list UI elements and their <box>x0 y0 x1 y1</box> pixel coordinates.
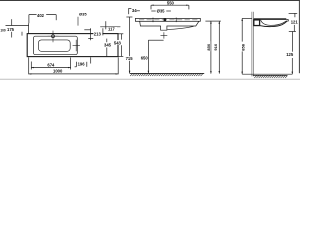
svg-text:850: 850 <box>206 43 211 50</box>
dim o35 leader <box>151 10 155 12</box>
basin drain cross <box>75 40 77 51</box>
svg-text:402: 402 <box>37 13 45 18</box>
bottom dim line <box>242 73 292 75</box>
trap curve <box>167 26 193 29</box>
plan o35 leader <box>77 17 79 26</box>
dim 213 <box>84 29 90 31</box>
slab center hole (filled) <box>164 19 167 22</box>
dim 858 <box>242 17 252 19</box>
svg-text:674: 674 <box>47 62 55 67</box>
page frame right edge <box>298 0 300 73</box>
page frame top edge <box>0 0 300 2</box>
hatching middle floor <box>130 74 203 76</box>
svg-text:910: 910 <box>213 43 218 50</box>
extension line left top <box>28 23 30 33</box>
dim 715 line <box>126 16 132 18</box>
dim 34 <box>128 8 130 14</box>
label 402 <box>37 13 47 18</box>
svg-text:175: 175 <box>7 27 15 32</box>
label 345 <box>104 42 112 47</box>
svg-text:715: 715 <box>126 56 134 61</box>
bowl outer shell <box>260 21 288 27</box>
bowl inner surface <box>261 20 287 25</box>
floor line middle <box>130 72 205 74</box>
svg-text:650: 650 <box>141 55 149 60</box>
svg-text:196: 196 <box>78 62 86 67</box>
label 117 <box>108 27 117 32</box>
label 858 rotated <box>240 42 245 52</box>
page frame bottom edge <box>0 78 300 80</box>
dim 402 brackets <box>28 15 30 24</box>
faucet hole symbol <box>52 35 55 38</box>
label 543 <box>113 40 121 45</box>
wall double line <box>251 12 253 77</box>
side floor line <box>253 74 287 76</box>
slab centerline <box>139 19 199 21</box>
dim 1000 <box>28 57 30 74</box>
dim 674 <box>30 62 32 70</box>
drain cross <box>163 32 165 38</box>
label 213 <box>93 32 102 37</box>
svg-text:125: 125 <box>286 52 294 57</box>
label 850 rotated <box>206 41 211 51</box>
svg-text:Ø35: Ø35 <box>79 12 87 17</box>
dim 125 line <box>291 32 293 52</box>
svg-text:100: 100 <box>0 28 6 32</box>
basin outer rounded rect <box>34 36 78 55</box>
back block <box>254 20 260 26</box>
height dim line 2 <box>218 21 220 74</box>
svg-text:1000: 1000 <box>53 69 63 74</box>
height dims extension <box>205 20 221 22</box>
basin inner rounded rect <box>38 40 70 51</box>
slab hole ticks <box>152 18 154 23</box>
plan outer rect <box>27 34 118 57</box>
height dim line 1 <box>210 21 212 74</box>
dim 345 line <box>106 39 108 43</box>
dim 117 <box>105 21 107 29</box>
196 extension <box>90 57 92 63</box>
fixture top band <box>254 18 287 20</box>
hole cross mark <box>88 37 93 39</box>
label 715 <box>125 56 133 61</box>
svg-text:117: 117 <box>108 27 115 32</box>
svg-text:Ø35: Ø35 <box>157 9 166 14</box>
label 910 rotated <box>213 41 218 51</box>
dim 543 line <box>120 34 122 40</box>
hole extension line <box>90 28 92 40</box>
front rim step <box>286 20 288 21</box>
left margin dim 175 marks <box>6 25 29 27</box>
dim 121 <box>289 12 298 14</box>
dim 650 leader <box>147 40 149 73</box>
svg-text:121: 121 <box>291 19 299 24</box>
dim 196 brackets <box>75 62 77 67</box>
svg-text:543: 543 <box>114 40 122 45</box>
svg-text:550: 550 <box>167 0 175 5</box>
body outline <box>140 21 199 30</box>
svg-text:34: 34 <box>132 8 137 13</box>
svg-text:858: 858 <box>240 43 245 50</box>
label 125 <box>286 52 294 57</box>
label 121 <box>290 19 298 24</box>
dim 550 <box>151 4 189 6</box>
slab <box>135 18 200 21</box>
svg-text:345: 345 <box>104 42 112 47</box>
svg-text:213: 213 <box>94 32 102 37</box>
hatching side floor <box>254 76 287 78</box>
